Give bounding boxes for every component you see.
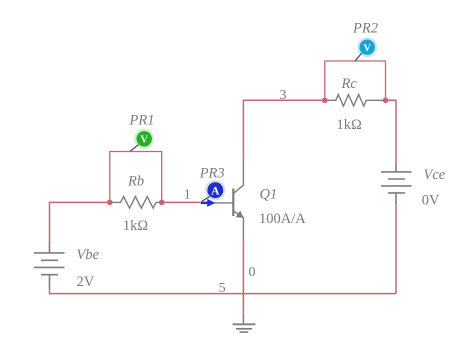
battery Vbe <box>34 242 65 289</box>
svg-text:Vbe: Vbe <box>77 247 100 263</box>
junction: Rc right pin <box>383 98 389 104</box>
ground <box>233 314 256 332</box>
svg-text:Vce: Vce <box>424 167 446 183</box>
svg-text:V: V <box>363 43 371 54</box>
resistor Rc <box>325 95 386 106</box>
svg-text:Rb: Rb <box>127 173 144 189</box>
probe PR3 (current, blue) with arrow <box>201 180 226 207</box>
svg-text:2V: 2V <box>77 274 95 290</box>
svg-text:5: 5 <box>219 281 226 296</box>
svg-text:1: 1 <box>184 188 191 203</box>
junction: Rb right pin <box>159 200 165 206</box>
svg-text:PR1: PR1 <box>129 112 155 128</box>
probe PR2 (voltage, cyan) <box>355 37 377 61</box>
emitter arrow of Q1 <box>236 211 244 218</box>
wire: Q1 emitter down to ground (node 0 / 5 cross) <box>242 241 244 314</box>
wire: PR1 probe box across Rb <box>110 152 162 203</box>
wire: node 3 from Q1 collector up and right to Rc <box>243 100 324 158</box>
svg-text:Q1: Q1 <box>260 187 278 203</box>
base bar <box>232 189 234 217</box>
svg-text:0V: 0V <box>422 192 440 208</box>
wire: node 1 from Rb right pin to Q1 base <box>162 201 208 203</box>
battery Vce <box>381 165 412 205</box>
svg-text:3: 3 <box>280 88 287 103</box>
collector lead <box>233 158 243 193</box>
svg-text:PR2: PR2 <box>352 20 378 36</box>
svg-text:100A/A: 100A/A <box>259 211 306 227</box>
transistor Q1 (NPN) <box>208 158 243 240</box>
probe PR1 (voltage, green) <box>130 129 154 152</box>
svg-text:PR3: PR3 <box>199 165 225 181</box>
svg-text:1kΩ: 1kΩ <box>123 218 148 234</box>
resistor Rb <box>110 197 162 209</box>
pin: base lead <box>208 202 233 204</box>
junction: Rc left pin <box>322 98 328 104</box>
wire: PR2 probe box across Rc <box>325 61 386 100</box>
wire: Rc right pin to Vce top <box>386 100 397 164</box>
wire: Vbe top to base net (left vertical + horizontal to Rb) <box>50 202 110 241</box>
wire: Vce bottom to bottom net <box>395 204 397 294</box>
emitter lead <box>233 211 243 241</box>
svg-text:V: V <box>140 135 148 146</box>
svg-text:0: 0 <box>249 265 256 280</box>
wire: bottom net from Vbe bottom to right vertical <box>50 289 397 294</box>
junction: Rb left pin <box>107 200 113 206</box>
svg-text:1kΩ: 1kΩ <box>337 117 363 133</box>
svg-text:Rc: Rc <box>341 76 358 92</box>
svg-text:A: A <box>211 186 220 198</box>
